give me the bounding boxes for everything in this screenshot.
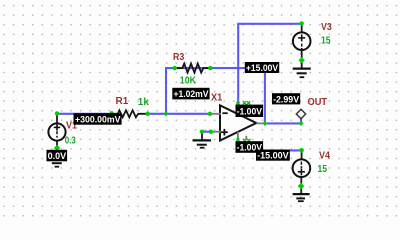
op-amp X1 [220, 105, 256, 140]
wire feedback top horizontal [165, 67, 265, 69]
wire V1 to R1 [57, 113, 112, 115]
svg-text:10K: 10K [180, 76, 197, 87]
voltage source V1 [48, 114, 65, 151]
value box -15.00V [256, 150, 290, 162]
svg-text:15: 15 [318, 164, 328, 175]
wire R1 to op-amp inverting input [148, 113, 210, 115]
value box +15.00V [245, 62, 279, 74]
svg-text:V4: V4 [319, 151, 330, 162]
node dot noninverting input [209, 130, 213, 134]
node diamond V3 bottom [299, 57, 305, 63]
node dot inverting input [208, 112, 212, 116]
resistor R1 [112, 110, 148, 117]
ground below V1 [48, 151, 66, 167]
pin marks op-amp top aux pins [243, 101, 250, 104]
wire feedback vertical left [165, 68, 167, 114]
wire feedback right vertical [264, 67, 266, 123]
node diamond V4 bottom [298, 183, 305, 190]
wire V- rail to V4 [246, 141, 301, 150]
svg-text:OUT: OUT [308, 97, 328, 108]
op-amp power pin stubs bottom [237, 132, 239, 140]
voltage source V4 [293, 150, 311, 184]
ground below V4 [293, 188, 310, 201]
value box -2.99V [272, 93, 300, 105]
pin mark op-amp bottom left pin [236, 139, 239, 142]
svg-text:+15.00V: +15.00V [246, 63, 279, 74]
svg-text:-1.00V: -1.00V [237, 106, 263, 117]
junction diamond OUT node [298, 121, 303, 126]
wire op-amp noninverting to ground [202, 131, 211, 133]
svg-text:0.3: 0.3 [65, 136, 76, 147]
svg-text:+300.00mV: +300.00mV [75, 115, 121, 126]
svg-text:-15.00V: -15.00V [257, 151, 289, 162]
value box 0.0V [47, 150, 68, 162]
ground at op-amp + input [193, 132, 212, 148]
svg-text:15: 15 [321, 35, 331, 46]
node dot V1 top [55, 111, 59, 115]
pin mark op-amp V+ pin [236, 102, 239, 104]
svg-text:X1: X1 [211, 92, 223, 103]
junction diamond op-amp output [262, 121, 267, 126]
wire V+ rail vertical [237, 24, 239, 105]
svg-text:V3: V3 [321, 22, 332, 33]
junction diamond feedback/input [163, 111, 168, 116]
svg-text:1k: 1k [138, 97, 150, 108]
wire output to OUT diamond [300, 118, 302, 124]
node dot R1 right [146, 112, 150, 116]
node dot V3 top [300, 21, 304, 25]
pin marks op-amp bottom aux pins [243, 139, 251, 142]
voltage source V3 [293, 24, 311, 58]
resistor R3 [175, 64, 211, 73]
value box +1.02mV [172, 88, 209, 100]
node diamond V1 bottom [54, 145, 60, 151]
ground below V3 [293, 62, 311, 77]
node dot R1 left [110, 111, 114, 115]
wire V+ rail horizontal to V3 [237, 23, 302, 25]
svg-text:+1.02mV: +1.02mV [174, 89, 210, 100]
op-amp power pin stubs top [237, 104, 239, 114]
svg-text:R3: R3 [173, 52, 185, 63]
svg-text:-2.99V: -2.99V [273, 94, 300, 105]
node dot V4 top [299, 148, 304, 153]
OUT node diamond marker [296, 109, 305, 118]
op-amp output stub [256, 122, 263, 124]
svg-text:R1: R1 [116, 96, 129, 107]
svg-text:0.0V: 0.0V [48, 151, 67, 162]
value box -1.00V bottom [236, 141, 264, 153]
wire op-amp output [265, 122, 301, 124]
value box -1.00V top [236, 105, 264, 118]
node dot R3 right [208, 66, 212, 70]
op-amp input pin stubs [210, 113, 221, 115]
value box +300.00mV [74, 113, 122, 125]
node dot R3 left [173, 66, 177, 70]
node dot ground wire left [200, 130, 204, 134]
